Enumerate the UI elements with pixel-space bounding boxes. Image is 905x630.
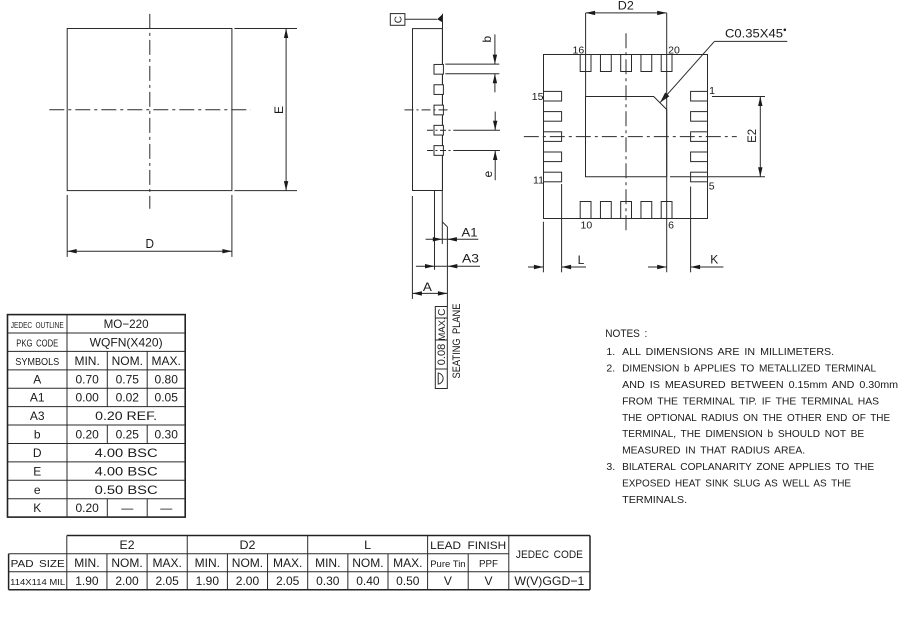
svg-text:6: 6 xyxy=(668,219,674,231)
notes text xyxy=(605,328,898,506)
terminal pad 20 top xyxy=(661,55,672,72)
svg-text:—: — xyxy=(160,501,172,515)
svg-text:0.25: 0.25 xyxy=(116,428,140,442)
svg-text:b: b xyxy=(34,428,41,442)
pin number 20 xyxy=(668,45,680,57)
svg-text:A: A xyxy=(423,280,432,294)
svg-text:MAX.: MAX. xyxy=(393,556,422,570)
svg-text:NOM.: NOM. xyxy=(352,556,383,570)
A1 extension line xyxy=(441,191,443,244)
pin number 10 xyxy=(581,220,593,232)
svg-text:3.: 3. xyxy=(606,461,615,473)
svg-text:E: E xyxy=(272,106,286,114)
svg-text:MAX.: MAX. xyxy=(273,556,302,570)
terminal pad 19 top xyxy=(641,55,652,72)
package dimension table text xyxy=(11,317,181,515)
terminal pad 17 top xyxy=(600,55,611,72)
pin number 6 xyxy=(668,219,674,231)
dimension e label xyxy=(481,170,495,177)
dimension K line left xyxy=(648,265,667,269)
pin number 15 xyxy=(532,91,544,103)
terminal pad 2 right xyxy=(691,112,708,122)
svg-text:4.00 BSC: 4.00 BSC xyxy=(95,446,158,460)
svg-text:NOM.: NOM. xyxy=(111,556,142,570)
svg-text:TERMINALS.: TERMINALS. xyxy=(622,494,687,506)
flatness frame datum letter C xyxy=(437,309,448,316)
svg-text:PPF: PPF xyxy=(479,559,498,570)
svg-text:MO−220: MO−220 xyxy=(104,317,149,331)
svg-text:0.30: 0.30 xyxy=(155,428,179,442)
dimension A line xyxy=(412,291,447,295)
svg-text:0.20: 0.20 xyxy=(75,501,99,515)
dimension D line xyxy=(67,249,232,253)
svg-text:e: e xyxy=(481,170,495,177)
dimension L extension line left xyxy=(542,222,544,273)
svg-text:A3: A3 xyxy=(462,252,479,266)
dimension L line right xyxy=(562,265,586,269)
svg-text:MAX.: MAX. xyxy=(153,556,182,570)
svg-text:JEDEC OUTLINE: JEDEC OUTLINE xyxy=(11,320,64,330)
svg-text:DIMENSION b APPLIES TO METALLI: DIMENSION b APPLIES TO METALLIZED TERMIN… xyxy=(622,363,876,375)
svg-text:MAX.: MAX. xyxy=(152,354,181,368)
svg-text:20: 20 xyxy=(668,45,680,57)
svg-text:0.75: 0.75 xyxy=(116,372,140,386)
flatness frame box xyxy=(435,307,447,389)
side view terminal 1 xyxy=(434,64,443,74)
svg-text:1: 1 xyxy=(709,85,715,97)
svg-text:0.20: 0.20 xyxy=(75,428,99,442)
terminal pad 14 left xyxy=(544,112,562,122)
terminal pad 12 left xyxy=(544,152,562,162)
side view terminal 3 xyxy=(434,105,443,115)
svg-text:E2: E2 xyxy=(120,538,135,552)
dimension K line right xyxy=(691,265,724,269)
top view body outline D x E xyxy=(67,29,232,191)
dimension D2 label xyxy=(618,0,634,12)
svg-text:2.: 2. xyxy=(606,363,615,375)
dimension b extension line bottom xyxy=(445,73,499,75)
terminal pad 16 top xyxy=(580,55,591,72)
side view seating edge line xyxy=(442,14,444,191)
svg-text:0.20 REF.: 0.20 REF. xyxy=(95,409,157,423)
svg-text:2.00: 2.00 xyxy=(115,574,139,588)
dimension A3 line xyxy=(416,264,480,268)
svg-text:C0.35X45: C0.35X45 xyxy=(725,29,783,41)
dimension A3 label xyxy=(462,252,479,266)
svg-text:MIN.: MIN. xyxy=(74,556,99,570)
dimension E extension line top xyxy=(234,28,297,30)
svg-text:—: — xyxy=(121,501,133,515)
svg-text:W(V)GGD−1: W(V)GGD−1 xyxy=(514,574,584,588)
pin number 5 xyxy=(709,181,715,193)
svg-text:NOM.: NOM. xyxy=(112,354,143,368)
svg-text:1.90: 1.90 xyxy=(196,574,220,588)
svg-text:A: A xyxy=(33,372,41,386)
chamfer leader arrow xyxy=(660,93,669,103)
dimension K extension line right xyxy=(690,187,692,273)
side view horizontal centerline xyxy=(405,109,451,111)
datum C letter xyxy=(393,16,404,23)
dimension D extension line left xyxy=(66,195,68,257)
terminal pad 6 bottom xyxy=(661,202,672,219)
svg-text:1.: 1. xyxy=(606,346,615,358)
terminal pad 15 left xyxy=(544,91,562,101)
svg-text:AND IS MEASURED BETWEEN 0.15mm: AND IS MEASURED BETWEEN 0.15mm AND 0.30m… xyxy=(622,379,898,391)
svg-text:0.05: 0.05 xyxy=(155,391,179,405)
datum C leader line xyxy=(405,18,437,20)
svg-text:V: V xyxy=(444,574,452,588)
bottom view horizontal centerline xyxy=(524,136,737,138)
terminal pad 7 bottom xyxy=(641,202,652,219)
svg-text:C: C xyxy=(437,309,448,316)
dimension E2 extension line top xyxy=(712,96,765,98)
A3 extension line xyxy=(434,191,436,270)
dimension b line lower xyxy=(493,74,497,93)
terminal pad 8 bottom xyxy=(621,202,632,219)
svg-text:b: b xyxy=(480,36,494,43)
svg-text:D2: D2 xyxy=(239,538,255,552)
svg-text:0.50 BSC: 0.50 BSC xyxy=(95,483,158,497)
svg-text:15: 15 xyxy=(532,91,544,103)
chamfer leader horizontal xyxy=(714,40,787,42)
svg-text:4.00 BSC: 4.00 BSC xyxy=(95,464,158,478)
terminal pad 9 bottom xyxy=(600,202,611,219)
svg-text:0.40: 0.40 xyxy=(356,574,380,588)
flatness frame divider 1 xyxy=(435,317,447,319)
svg-text:0.00: 0.00 xyxy=(75,391,99,405)
terminal pad 13 left xyxy=(544,132,562,142)
svg-text:MEASURED IN THAT RADIUS AREA.: MEASURED IN THAT RADIUS AREA. xyxy=(622,445,805,457)
terminal 4 centerline tick xyxy=(427,129,451,131)
dimension b extension line top xyxy=(445,63,499,65)
seating plane line xyxy=(446,227,448,307)
flatness frame 0.08 text xyxy=(436,344,448,365)
svg-text:K: K xyxy=(33,501,41,515)
svg-text:A3: A3 xyxy=(30,409,45,423)
terminal pad 3 right xyxy=(691,132,708,142)
dimension L extension line right xyxy=(561,184,563,272)
svg-text:A1: A1 xyxy=(30,391,45,405)
svg-text:ALL DIMENSIONS ARE IN MILLIMET: ALL DIMENSIONS ARE IN MILLIMETERS. xyxy=(622,346,834,358)
svg-text:0.80: 0.80 xyxy=(155,372,179,386)
degree dot xyxy=(784,29,787,32)
svg-text:EXPOSED HEAT SINK SLUG AS WELL: EXPOSED HEAT SINK SLUG AS WELL AS THE xyxy=(622,478,851,490)
dimension E label xyxy=(272,106,286,114)
pad size table grid xyxy=(9,536,590,590)
dimension D2 extension line right xyxy=(666,13,668,272)
dimension e line upper xyxy=(493,112,497,131)
svg-text:0.50: 0.50 xyxy=(396,574,420,588)
flatness symbol xyxy=(438,373,443,385)
pin number 11 xyxy=(533,174,544,186)
svg-text:11: 11 xyxy=(533,174,544,186)
top view vertical centerline xyxy=(149,14,151,209)
svg-text:e: e xyxy=(34,483,41,497)
svg-text:V: V xyxy=(484,574,492,588)
svg-text:FROM THE TERMINAL TIP. IF THE: FROM THE TERMINAL TIP. IF THE TERMINAL H… xyxy=(622,395,879,407)
terminal pad 18 top xyxy=(621,55,632,72)
dimension b label xyxy=(480,36,494,43)
dimension L label xyxy=(578,253,585,267)
bottom view vertical centerline xyxy=(625,33,627,233)
svg-text:NOTES :: NOTES : xyxy=(605,328,647,340)
svg-text:K: K xyxy=(710,253,718,267)
side view body outline xyxy=(413,29,443,191)
svg-text:D: D xyxy=(33,446,42,460)
svg-text:A1: A1 xyxy=(462,226,478,240)
svg-text:LEAD FINISH: LEAD FINISH xyxy=(430,540,506,552)
pin number 1 xyxy=(709,85,715,97)
A left extension line xyxy=(411,196,413,299)
svg-text:MIN.: MIN. xyxy=(74,354,99,368)
dimension e extension line lower xyxy=(453,150,500,152)
svg-text:SYMBOLS: SYMBOLS xyxy=(15,356,59,368)
dimension A label xyxy=(423,280,432,294)
terminal pad 10 bottom xyxy=(580,202,591,219)
dimension E2 extension line bottom xyxy=(670,176,765,178)
dimension b line upper xyxy=(493,34,497,64)
svg-text:L: L xyxy=(578,253,585,267)
chamfer leader diagonal xyxy=(660,41,714,102)
svg-text:0.02: 0.02 xyxy=(116,391,140,405)
dimension D2 extension line left xyxy=(585,13,587,97)
dimension E line xyxy=(284,29,288,191)
datum C filled triangle xyxy=(437,14,443,23)
svg-text:E: E xyxy=(33,464,41,478)
svg-text:JEDEC CODE: JEDEC CODE xyxy=(516,549,583,561)
dimension A1 line xyxy=(426,237,479,241)
dimension L line left xyxy=(528,265,543,269)
package dimension table grid xyxy=(8,315,186,518)
svg-text:L: L xyxy=(364,538,371,552)
svg-text:D: D xyxy=(145,236,154,251)
dimension A1 label xyxy=(462,226,478,240)
svg-text:1.90: 1.90 xyxy=(75,574,99,588)
terminal pad 4 right xyxy=(691,152,708,162)
pin number 16 xyxy=(573,45,585,57)
svg-text:C: C xyxy=(393,16,404,23)
top view horizontal centerline xyxy=(49,109,250,111)
datum C symbol box xyxy=(390,14,405,26)
dimension E extension line bottom xyxy=(234,190,297,192)
flatness frame divider 3 xyxy=(435,368,447,370)
dimension K label xyxy=(710,253,718,267)
terminal 5 centerline tick xyxy=(427,150,451,152)
svg-text:16: 16 xyxy=(573,45,585,57)
dimension E2 label xyxy=(745,129,759,143)
bottom view package outline xyxy=(544,55,708,219)
svg-text:5: 5 xyxy=(709,181,715,193)
seating plane label xyxy=(451,304,463,379)
svg-text:2.00: 2.00 xyxy=(236,574,260,588)
svg-text:0.08: 0.08 xyxy=(436,344,448,365)
svg-text:PAD SIZE: PAD SIZE xyxy=(11,558,65,570)
side view mold chamfer step xyxy=(442,222,447,227)
dimension D label xyxy=(145,236,154,251)
exposed pad outline with chamfer xyxy=(586,97,667,177)
svg-text:2.05: 2.05 xyxy=(276,574,300,588)
svg-text:114X114 MIL: 114X114 MIL xyxy=(10,577,65,587)
terminal pad 1 right xyxy=(691,91,708,101)
svg-text:BILATERAL COPLANARITY ZONE APP: BILATERAL COPLANARITY ZONE APPLIES TO TH… xyxy=(622,461,874,473)
svg-text:TERMINAL, THE DIMENSION b SHOU: TERMINAL, THE DIMENSION b SHOULD NOT BE xyxy=(622,428,864,440)
svg-text:Pure Tin: Pure Tin xyxy=(430,559,465,570)
svg-text:PKG CODE: PKG CODE xyxy=(16,339,58,350)
dimension E2 line xyxy=(758,97,762,177)
svg-text:MAX.: MAX. xyxy=(437,317,448,340)
side view terminal 4 xyxy=(434,125,443,135)
dimension e line lower xyxy=(493,151,497,181)
svg-text:E2: E2 xyxy=(745,129,759,143)
side view terminal 5 xyxy=(434,146,443,156)
side view terminal 2 xyxy=(434,85,443,95)
svg-text:WQFN(X420): WQFN(X420) xyxy=(90,336,163,350)
svg-text:NOM.: NOM. xyxy=(232,556,263,570)
svg-text:D2: D2 xyxy=(618,0,634,12)
svg-text:MIN.: MIN. xyxy=(195,556,220,570)
svg-text:MIN.: MIN. xyxy=(315,556,340,570)
svg-text:0.70: 0.70 xyxy=(75,372,99,386)
dimension e extension line upper xyxy=(453,129,500,131)
dimension D extension line right xyxy=(231,195,233,257)
svg-text:10: 10 xyxy=(581,220,593,232)
chamfer callout text xyxy=(725,29,783,41)
svg-text:SEATING PLANE: SEATING PLANE xyxy=(451,304,463,379)
flatness frame divider 2 xyxy=(435,339,447,341)
svg-text:2.05: 2.05 xyxy=(155,574,179,588)
flatness frame MAX text xyxy=(437,317,448,340)
svg-text:THE OPTIONAL RADIUS ON THE OTH: THE OPTIONAL RADIUS ON THE OTHER END OF … xyxy=(622,412,890,424)
terminal pad 5 right xyxy=(691,172,708,182)
svg-text:0.30: 0.30 xyxy=(316,574,340,588)
dimension D2 line xyxy=(586,11,667,15)
pad size table text xyxy=(10,538,585,588)
terminal pad 11 left xyxy=(544,172,562,182)
